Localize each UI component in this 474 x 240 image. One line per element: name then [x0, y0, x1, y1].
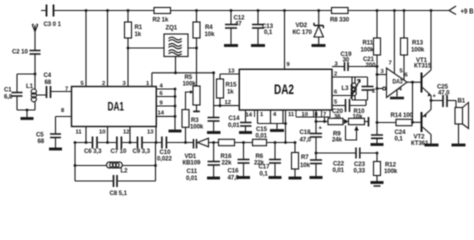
capacitor C6 — [93, 137, 98, 149]
wire bottom row (DA1 pins 11..13 / detector) — [75, 142, 186, 144]
svg-text:2: 2 — [102, 81, 105, 87]
svg-text:C17: C17 — [259, 164, 271, 171]
capacitor C14 — [208, 118, 220, 132]
svg-text:47: 47 — [235, 21, 242, 28]
node pin11/cells junction — [284, 122, 287, 125]
speaker B1 — [455, 101, 469, 144]
ground (C22) — [310, 176, 323, 179]
capacitor C9 — [138, 137, 143, 149]
svg-text:L2: L2 — [121, 168, 129, 175]
svg-text:C11: C11 — [187, 168, 198, 175]
zener diode VD2 — [314, 11, 323, 45]
wire DA1 pin 3 (below R1) — [127, 48, 129, 87]
svg-text:68: 68 — [38, 138, 45, 145]
+9V supply connector — [449, 6, 456, 15]
ground (C24) — [371, 143, 384, 146]
svg-text:13: 13 — [147, 130, 154, 136]
inductor L2 — [75, 162, 156, 168]
wire DA3 pin7 — [393, 11, 395, 74]
wire base drive column — [413, 82, 422, 122]
wire DA2 pin2 to tank — [332, 77, 352, 100]
op-amp/IC DA1 — [72, 87, 157, 127]
capacitor C2 — [30, 51, 41, 55]
svg-text:22k: 22k — [222, 160, 233, 167]
svg-text:0,01: 0,01 — [256, 133, 268, 140]
svg-text:КС 170: КС 170 — [293, 29, 313, 36]
wire DA1 pin 1 — [151, 73, 153, 87]
svg-text:2: 2 — [334, 71, 337, 77]
capacitor C11 — [208, 143, 221, 178]
wire DA2 pin 7 down — [324, 117, 326, 122]
svg-text:0,1: 0,1 — [264, 29, 273, 36]
capacitor C13 — [252, 11, 264, 45]
DA2 bottom pin cells — [255, 110, 331, 117]
resistor R12 — [374, 153, 381, 182]
op-amp DA3 — [387, 68, 408, 98]
capacitor C12 — [225, 11, 237, 45]
svg-text:47,0: 47,0 — [438, 90, 450, 97]
svg-text:14: 14 — [246, 112, 253, 118]
svg-text:0,1: 0,1 — [395, 136, 404, 143]
svg-text:1k: 1k — [135, 31, 142, 38]
capacitor C8 — [75, 175, 156, 187]
resistor R13 — [401, 11, 408, 81]
resistor R11 — [374, 11, 381, 123]
wire top +9V rail — [41, 10, 450, 12]
svg-text:L1: L1 — [26, 83, 34, 90]
svg-text:1k: 1k — [227, 89, 234, 96]
svg-text:C7 10: C7 10 — [111, 148, 127, 155]
ground (C16) — [237, 176, 250, 179]
svg-text:14: 14 — [158, 111, 165, 117]
wire right column — [155, 143, 157, 182]
DA1 left pin labels — [61, 87, 68, 115]
wiper arrowhead between R9 and R10 — [344, 119, 349, 124]
ground (C15) — [239, 131, 252, 134]
ground (C11) — [207, 177, 220, 180]
svg-text:C3 0 1: C3 0 1 — [44, 21, 62, 28]
inductor L1 — [31, 89, 36, 102]
svg-text:C9 3,3: C9 3,3 — [133, 148, 151, 155]
ground (C14) — [207, 131, 221, 134]
resistor R16 — [214, 139, 253, 145]
resistor R3 — [182, 92, 192, 143]
svg-text:DA3: DA3 — [393, 78, 404, 85]
inductor L3 — [351, 77, 361, 100]
svg-text:0,01: 0,01 — [186, 175, 198, 182]
ground (B1) — [452, 144, 466, 147]
wire tank rails L3/C21 — [352, 77, 368, 100]
svg-text:КТ315: КТ315 — [414, 63, 432, 70]
svg-text:C6 3,3: C6 3,3 — [84, 148, 102, 155]
resistor R6 — [253, 139, 296, 145]
svg-text:R2 1k: R2 1k — [153, 17, 169, 24]
svg-text:100k: 100k — [361, 47, 375, 54]
wire audio row to C23 — [316, 152, 356, 154]
svg-text:R4: R4 — [205, 24, 213, 31]
op-amp/IC DA2 — [239, 69, 332, 110]
DA1 right pin stubs 4,6,9,14 and bus — [156, 89, 175, 130]
svg-text:C16: C16 — [228, 168, 240, 175]
node junction dots on top rail — [85, 9, 433, 12]
svg-text:C4: C4 — [44, 72, 52, 79]
svg-text:36: 36 — [334, 114, 341, 121]
varicap diode VD1 — [186, 138, 214, 148]
svg-text:30: 30 — [343, 57, 350, 64]
svg-text:+9 В: +9 В — [461, 7, 474, 16]
capacitor C21 — [362, 87, 374, 91]
capacitor C16 — [238, 143, 250, 177]
svg-text:10k: 10k — [300, 162, 311, 169]
wire DA1 pin 2 — [107, 11, 109, 87]
svg-text:C18: C18 — [300, 129, 312, 136]
ground (C5) — [49, 138, 62, 150]
crystal filter ZQ1 — [128, 34, 197, 73]
capacitor C3 — [47, 5, 54, 17]
svg-text:100k: 100k — [411, 47, 425, 54]
transistor VT1 — [422, 11, 432, 97]
wire DA2 pins 1,4 cells — [258, 110, 286, 124]
capacitor C5 — [50, 134, 61, 138]
svg-text:B1: B1 — [458, 98, 466, 105]
ground (DA3 pin4) — [390, 90, 404, 98]
svg-text:VD2: VD2 — [296, 22, 308, 29]
svg-text:200: 200 — [366, 62, 377, 69]
svg-text:R13: R13 — [412, 40, 424, 47]
capacitor C19 — [332, 62, 377, 71]
svg-text:68: 68 — [45, 79, 52, 86]
resistor R2 — [154, 8, 171, 14]
svg-text:0,1: 0,1 — [260, 171, 269, 178]
wire DA3 pin3 stub — [377, 74, 386, 76]
svg-text:47,0: 47,0 — [300, 137, 312, 144]
wire DA2 pin 8 column / capacitor C18 — [310, 110, 322, 160]
node tank top — [34, 73, 37, 76]
capacitor C24 — [371, 123, 383, 144]
svg-text:R8 330: R8 330 — [330, 17, 350, 24]
ground (C12) — [224, 44, 238, 47]
resistor R8 — [332, 8, 349, 14]
capacitor C22 — [310, 160, 322, 177]
svg-text:7: 7 — [65, 87, 68, 93]
resistor R7 — [292, 143, 299, 178]
capacitor C23 — [356, 148, 377, 159]
DA2 right pin labels — [334, 62, 339, 106]
wire DA1 pin1 row — [152, 72, 214, 74]
ground (R7) — [289, 177, 302, 180]
ground (C13) — [251, 44, 265, 47]
wire column to VD1 row — [213, 73, 215, 118]
node R1 bottom — [127, 47, 130, 50]
svg-text:R11: R11 — [363, 40, 374, 47]
wire DA3 pin2 stub — [377, 87, 386, 90]
wire DA2 pin 9 — [284, 11, 286, 70]
svg-text:24k: 24k — [332, 137, 343, 144]
ground (tank) — [21, 110, 34, 119]
ground (VT2) — [425, 144, 439, 147]
wire DA2 pin6 stub — [332, 95, 352, 97]
svg-text:10: 10 — [302, 112, 308, 118]
resistor R15 — [217, 74, 240, 106]
svg-text:10k: 10k — [353, 114, 364, 121]
capacitor C17 — [269, 143, 281, 177]
svg-text:C2 10: C2 10 — [12, 49, 28, 56]
svg-text:7: 7 — [389, 61, 392, 67]
svg-text:0,022: 0,022 — [157, 156, 172, 163]
svg-text:C1: C1 — [4, 87, 12, 94]
capacitor C7 — [117, 137, 122, 149]
DA1 top pin labels — [81, 81, 151, 87]
wire DA1 pin 5 — [85, 11, 87, 87]
resistor R9 — [316, 118, 343, 124]
svg-text:C8 5,1: C8 5,1 — [110, 190, 128, 197]
svg-text:ZQ1: ZQ1 — [166, 25, 178, 32]
svg-text:12: 12 — [225, 100, 231, 106]
wire tank rails — [17, 74, 35, 110]
svg-text:C14: C14 — [229, 115, 241, 122]
svg-text:R14 100: R14 100 — [391, 112, 414, 119]
wire left column of L2/C8 loop — [74, 143, 76, 182]
svg-text:100k: 100k — [183, 81, 197, 88]
svg-text:0,01: 0,01 — [228, 122, 240, 129]
antenna W1 — [32, 24, 38, 50]
svg-text:100k: 100k — [190, 124, 204, 131]
svg-text:R7: R7 — [301, 154, 309, 161]
capacitor C10 — [162, 137, 167, 149]
svg-text:10k: 10k — [205, 31, 216, 38]
capacitor C4 — [36, 86, 71, 98]
svg-text:R1: R1 — [135, 24, 143, 31]
svg-text:11: 11 — [288, 112, 295, 118]
transistor VT2 — [422, 110, 432, 144]
wire DA1 pin8 to C5 — [56, 117, 72, 135]
ground (DA1 bus) — [169, 130, 182, 133]
svg-text:L3: L3 — [342, 85, 350, 92]
svg-text:R15: R15 — [226, 82, 238, 89]
wire DA2 pin 11 down — [285, 110, 287, 143]
wiper arrowhead R5 — [190, 90, 193, 93]
wire DA3 pin6 output — [407, 81, 422, 83]
wire emitters junction — [430, 96, 432, 110]
capacitor C1 — [12, 93, 23, 97]
ground (C17) — [269, 176, 282, 179]
potentiometer R10 — [346, 117, 369, 140]
svg-text:2: 2 — [372, 89, 375, 95]
ground (R12) — [371, 183, 384, 187]
resistor R4 — [193, 11, 200, 49]
node ZQ1 out — [195, 47, 198, 50]
svg-text:13: 13 — [228, 69, 235, 75]
svg-text:DA2: DA2 — [274, 81, 294, 97]
svg-text:0,01: 0,01 — [333, 167, 345, 174]
svg-text:КВ109: КВ109 — [183, 160, 201, 167]
wire antenna to tank — [34, 54, 36, 74]
resistor R1 — [125, 11, 132, 49]
svg-text:0,33: 0,33 — [354, 168, 366, 175]
svg-text:DA1: DA1 — [108, 100, 125, 114]
svg-text:47,0: 47,0 — [228, 175, 240, 182]
resistor R5 (trimmer) — [193, 48, 200, 111]
resistor R14 — [377, 119, 412, 125]
svg-text:100k: 100k — [384, 168, 398, 175]
capacitor C20 — [332, 99, 366, 112]
svg-text:11: 11 — [76, 130, 83, 136]
svg-text:10: 10 — [99, 130, 105, 136]
capacitor C25 — [431, 95, 456, 107]
ground (VD2) — [312, 44, 326, 47]
capacitor C15 — [240, 110, 252, 132]
ground (pins 1,4) — [270, 124, 284, 131]
wire DA2 pin12 stub — [214, 105, 240, 107]
DA1 bottom pin wires 11,10,12,13 — [86, 127, 156, 143]
svg-text:12: 12 — [123, 130, 129, 136]
svg-text:КТ361: КТ361 — [411, 140, 429, 147]
svg-text:6,8: 6,8 — [4, 94, 13, 101]
